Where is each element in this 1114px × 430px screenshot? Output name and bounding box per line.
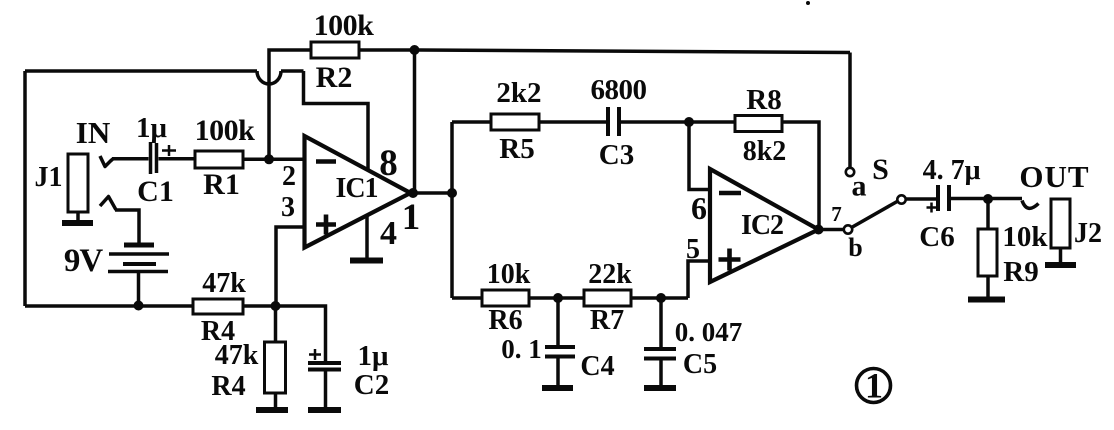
- wire R4 to C2 corner: [243, 306, 326, 361]
- resistor R5: [491, 114, 539, 130]
- node R7/C5: [656, 293, 666, 303]
- svg-text:IN: IN: [76, 115, 110, 150]
- svg-text:J2: J2: [1074, 218, 1102, 249]
- label C3: [599, 139, 634, 171]
- ground under C2: [308, 407, 341, 413]
- label C1: [137, 175, 174, 208]
- resistor R6: [482, 290, 529, 306]
- capacitor C2: [308, 349, 341, 370]
- wire node to R6: [452, 296, 482, 300]
- label b: [848, 233, 862, 262]
- node R4/pin3: [271, 301, 281, 311]
- label pin 7: [831, 202, 842, 226]
- svg-text:J1: J1: [35, 162, 63, 193]
- wire hook to C1: [112, 157, 149, 161]
- svg-text:1: 1: [402, 197, 421, 238]
- label S: [872, 153, 889, 186]
- wire R4 vertical stub: [274, 393, 278, 410]
- label pin 5: [686, 234, 700, 265]
- label 4.7u C6: [923, 155, 981, 186]
- label J1: [35, 162, 63, 193]
- wire IC1 output: [409, 191, 452, 195]
- svg-text:10k: 10k: [1002, 221, 1048, 253]
- wire IN hook: [100, 156, 113, 167]
- capacitor C3: [608, 107, 619, 136]
- wire R2 left lead: [269, 50, 311, 160]
- svg-text:R7: R7: [590, 305, 624, 336]
- label 47k R4h: [202, 268, 246, 299]
- svg-text:R9: R9: [1003, 256, 1038, 288]
- svg-text:C2: C2: [354, 369, 389, 401]
- label R7: [590, 305, 624, 336]
- svg-text:2: 2: [282, 161, 296, 192]
- label 10k R6: [487, 259, 531, 290]
- label R8: [746, 84, 781, 116]
- wire pin 5 jog: [688, 261, 710, 298]
- wire C5 stub: [659, 360, 663, 387]
- svg-text:2k2: 2k2: [496, 77, 541, 109]
- op-amp U2 IC2: [710, 169, 819, 282]
- label IN: [76, 115, 110, 150]
- battery 9V: [108, 245, 169, 272]
- label pin 8: [379, 143, 398, 184]
- wire R4 vertical drop: [274, 306, 278, 342]
- ground under R4 vertical: [256, 407, 288, 413]
- wire R2 right to top rail: [359, 50, 850, 53]
- svg-text:C1: C1: [137, 175, 174, 208]
- svg-text:9V: 9V: [64, 243, 104, 279]
- wire C1 to R1: [159, 157, 196, 161]
- resistor R1: [195, 151, 243, 168]
- svg-text:0. 047: 0. 047: [675, 317, 743, 347]
- svg-text:R1: R1: [203, 168, 240, 201]
- figure number 1 circled: [857, 366, 891, 406]
- label OUT: [1019, 159, 1089, 194]
- wire J1 sleeve hook: [100, 197, 116, 210]
- svg-text:1μ: 1μ: [136, 112, 168, 144]
- ground under C4: [542, 385, 573, 391]
- switch S pivot: [897, 195, 905, 203]
- label pin 6: [691, 190, 707, 226]
- label 0.1 C4: [501, 334, 542, 364]
- capacitor C5: [644, 349, 676, 359]
- svg-text:C4: C4: [580, 351, 614, 382]
- label R9: [1003, 256, 1038, 288]
- ground under J2: [1045, 262, 1076, 268]
- label C2: [354, 369, 389, 401]
- wire R9 stub: [986, 276, 990, 299]
- wire node to R5: [452, 120, 491, 124]
- label IC1: [335, 173, 377, 204]
- label R5: [499, 133, 534, 165]
- label a: [852, 170, 867, 203]
- op-amp U1 IC1: [305, 136, 411, 248]
- svg-text:C3: C3: [599, 139, 634, 171]
- wire pin 3 lead: [276, 227, 304, 306]
- label 1u C1: [136, 112, 168, 144]
- label 6800: [591, 74, 647, 106]
- svg-text:R6: R6: [488, 305, 522, 336]
- svg-text:100k: 100k: [314, 9, 375, 42]
- node C3/R8/pin6: [684, 117, 694, 127]
- wire switch blade: [852, 201, 899, 228]
- node output/mid vertical: [447, 188, 457, 198]
- wire C5 drop: [659, 298, 663, 347]
- switch S contact b: [844, 225, 852, 233]
- label C6: [919, 221, 954, 253]
- ground under pin 4: [350, 258, 383, 264]
- wire J2 stub: [1059, 248, 1063, 263]
- svg-text:1: 1: [865, 366, 883, 406]
- wire pivot to C6: [906, 197, 937, 201]
- svg-text:R4: R4: [211, 371, 245, 402]
- label 22k: [588, 259, 632, 290]
- wire top-left horizontal: [25, 69, 257, 73]
- resistor R4 horizontal: [193, 299, 243, 314]
- wire R6 to R7: [529, 296, 584, 300]
- svg-text:a: a: [852, 170, 867, 203]
- wire bottom rail left: [25, 304, 193, 308]
- label 1u C2: [358, 340, 390, 372]
- wire C4 drop: [556, 298, 560, 345]
- node R1/R2/pin2: [264, 154, 274, 164]
- svg-text:47k: 47k: [215, 340, 259, 371]
- svg-text:1μ: 1μ: [358, 340, 390, 372]
- node R2/top rail: [410, 45, 420, 55]
- svg-text:7: 7: [831, 202, 842, 226]
- label 100k R2: [314, 9, 375, 42]
- wire R5 to C3: [539, 120, 608, 124]
- wire R1 to pin 2: [243, 158, 304, 162]
- svg-text:22k: 22k: [588, 259, 632, 290]
- capacitor C6: [927, 185, 950, 213]
- resistor R8: [735, 116, 782, 132]
- resistor R2: [311, 42, 359, 58]
- svg-text:R5: R5: [499, 133, 534, 165]
- label 9V: [64, 243, 104, 279]
- svg-text:8k2: 8k2: [743, 136, 787, 167]
- node R6/C4: [553, 293, 563, 303]
- wire pin 6 jog: [689, 122, 710, 190]
- connector J2: [1051, 199, 1070, 248]
- wire hook to battery: [115, 210, 139, 244]
- speck: [806, 1, 810, 5]
- wire C2 stub: [324, 371, 328, 410]
- svg-text:S: S: [872, 153, 889, 186]
- svg-text:4: 4: [380, 215, 397, 252]
- svg-text:C5: C5: [683, 349, 717, 380]
- svg-text:OUT: OUT: [1019, 159, 1089, 194]
- resistor R9: [978, 229, 997, 276]
- ground under R9: [968, 297, 1005, 303]
- svg-text:IC1: IC1: [335, 173, 377, 204]
- label 47k R4v: [215, 340, 259, 371]
- wire down to switch contact a: [848, 53, 852, 168]
- svg-text:R2: R2: [316, 61, 353, 94]
- svg-text:3: 3: [281, 192, 295, 223]
- label IC2: [741, 210, 783, 241]
- svg-text:10k: 10k: [487, 259, 531, 290]
- label pin 3: [281, 192, 295, 223]
- wire hop to jog: [281, 69, 304, 73]
- node battery/bottom rail: [134, 301, 144, 311]
- svg-text:C6: C6: [919, 221, 954, 253]
- resistor R7: [584, 290, 631, 306]
- wire R8 right lead down: [782, 122, 819, 230]
- label R2: [316, 61, 353, 94]
- label R4h: [201, 316, 235, 347]
- svg-text:5: 5: [686, 234, 700, 265]
- label 10k R9: [1002, 221, 1048, 253]
- label R6: [488, 305, 522, 336]
- label C4: [580, 351, 614, 382]
- wire J1 stub: [76, 212, 80, 221]
- wire mid vertical node: [450, 122, 454, 298]
- wire battery minus to rail: [137, 273, 141, 306]
- label R4v: [211, 371, 245, 402]
- wire OUT hook: [1022, 201, 1039, 209]
- label J2: [1074, 218, 1102, 249]
- resistor R4 vertical: [265, 342, 286, 393]
- node IC1 output apex: [408, 188, 418, 198]
- wire C6 to node: [951, 197, 1022, 201]
- label pin 1: [402, 197, 421, 238]
- ground under J1: [62, 220, 93, 226]
- wire feedback vertical to IC1 output: [413, 50, 417, 193]
- ground under C5: [644, 385, 676, 391]
- wire R9 drop: [986, 199, 990, 229]
- svg-text:100k: 100k: [195, 114, 256, 147]
- capacitor C4: [545, 347, 575, 357]
- connector J1: [68, 154, 88, 212]
- label pin 4: [380, 215, 397, 252]
- wire R7 to pin5 corner: [631, 296, 688, 300]
- node IC2 output: [814, 225, 824, 235]
- wire pin 4 stub: [365, 215, 369, 258]
- label C5: [683, 349, 717, 380]
- switch S contact a: [846, 168, 854, 176]
- wire crossover hop: [257, 71, 281, 84]
- label 8k2: [743, 136, 787, 167]
- capacitor C1: [151, 142, 177, 174]
- svg-text:4. 7μ: 4. 7μ: [923, 155, 981, 186]
- svg-text:b: b: [848, 233, 862, 262]
- wire C3 to R8: [619, 120, 735, 124]
- svg-text:R8: R8: [746, 84, 781, 116]
- svg-text:8: 8: [379, 143, 398, 184]
- wire C4 stub: [556, 358, 560, 387]
- label R1: [203, 168, 240, 201]
- svg-text:IC2: IC2: [741, 210, 783, 241]
- wire jog to pin 8: [304, 71, 369, 170]
- svg-text:47k: 47k: [202, 268, 246, 299]
- node C6/R9/OUT: [983, 194, 993, 204]
- svg-text:6800: 6800: [591, 74, 647, 106]
- label 0.047 C5: [675, 317, 743, 347]
- wire IC2 output to contact b: [819, 228, 845, 232]
- svg-text:0. 1: 0. 1: [501, 334, 542, 364]
- label pin 2: [282, 161, 296, 192]
- svg-text:6: 6: [691, 190, 707, 226]
- label 2k2: [496, 77, 541, 109]
- wire left rail: [23, 71, 27, 306]
- label 100k R1: [195, 114, 256, 147]
